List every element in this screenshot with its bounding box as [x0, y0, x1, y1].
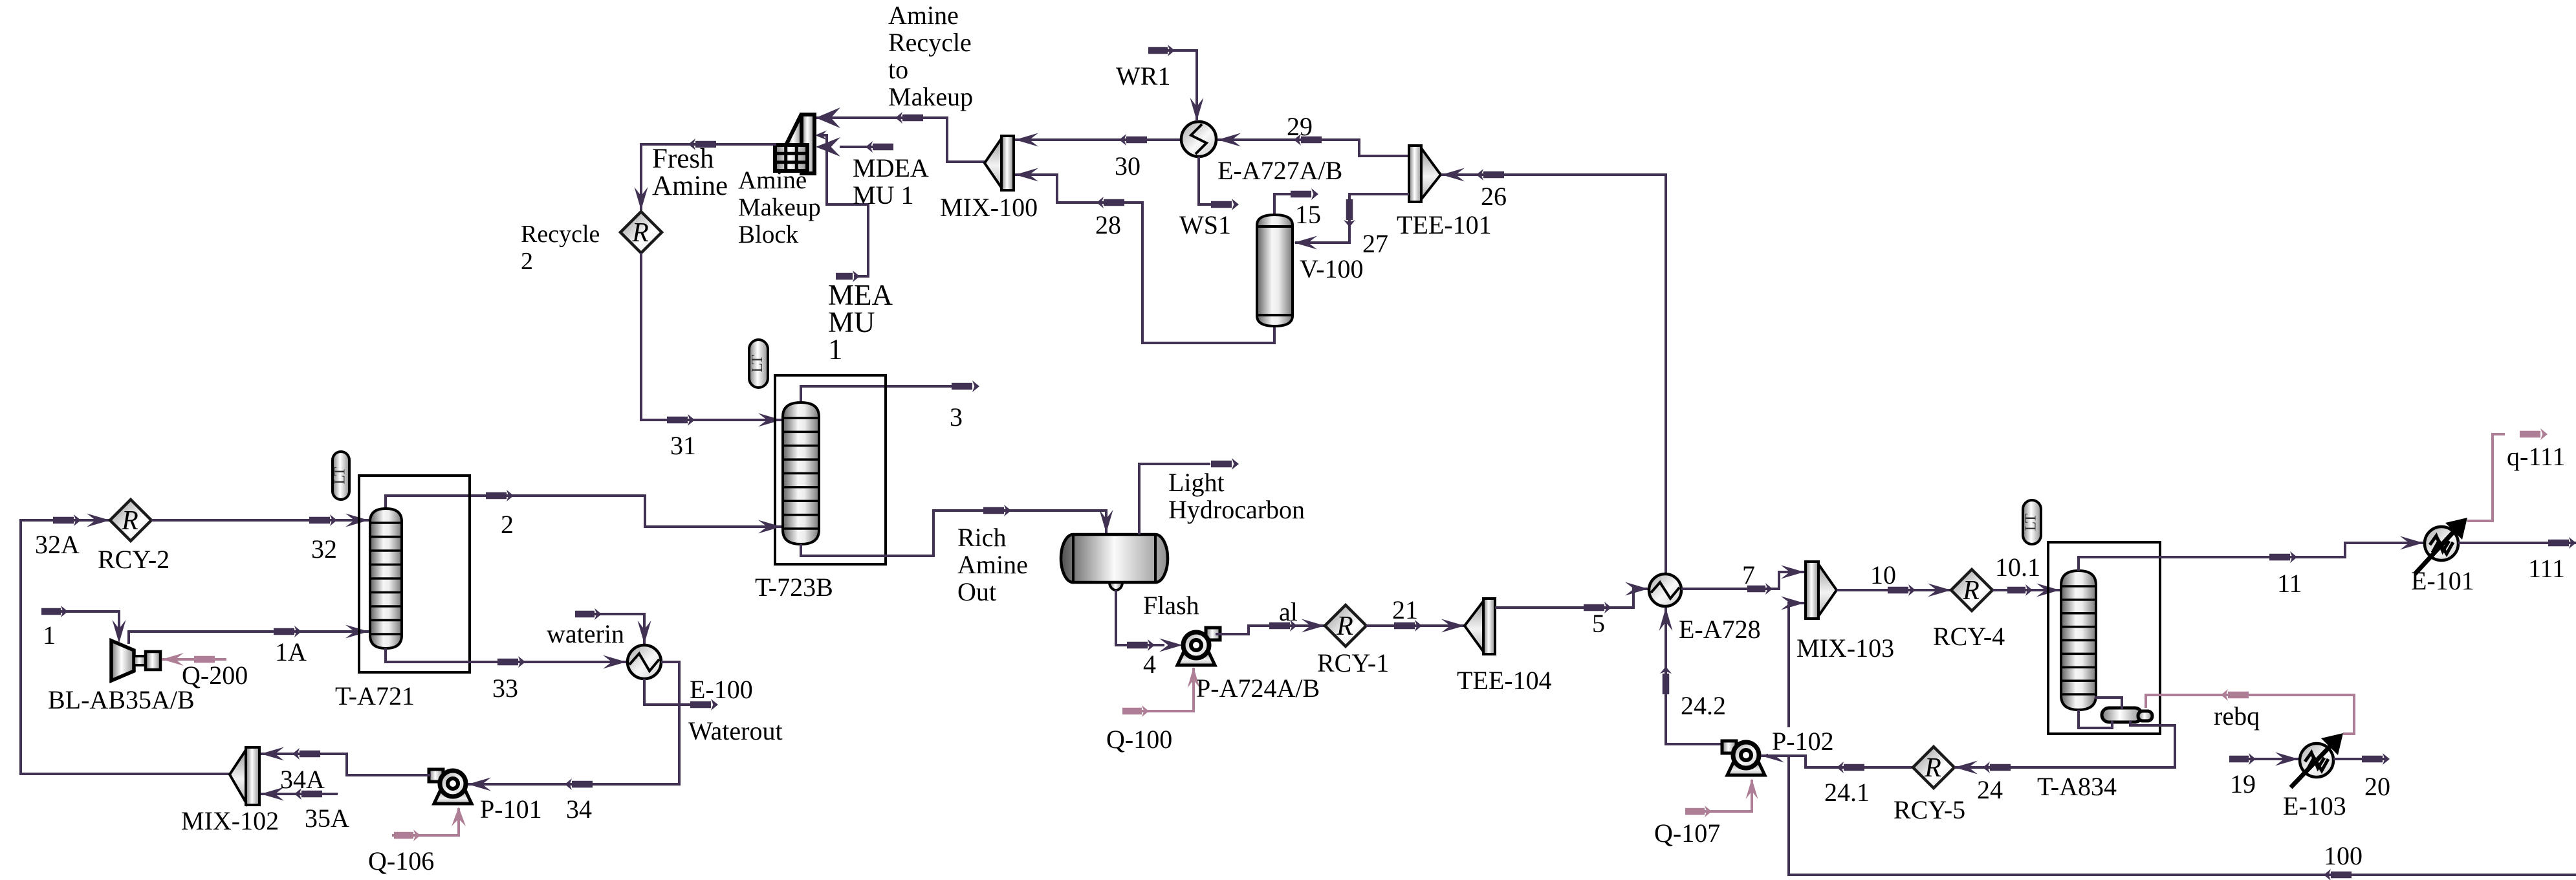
controller pill LT (T-A721) — [332, 452, 350, 500]
svg-text:WR1: WR1 — [1116, 61, 1170, 91]
svg-text:Recycle: Recycle — [888, 28, 972, 57]
label waterin — [547, 619, 624, 648]
label WR1 — [1116, 61, 1170, 91]
vessel V-100 — [1257, 215, 1293, 326]
recycle operation RCY-5 — [1913, 747, 1954, 788]
svg-text:LT: LT — [749, 355, 766, 372]
label MDEA MU 1 — [853, 153, 929, 210]
recycle operation RCY-2 — [110, 500, 151, 541]
wire rebq energy stream — [2146, 689, 2354, 734]
svg-text:Amine: Amine — [738, 166, 807, 194]
svg-text:1: 1 — [828, 333, 843, 366]
svg-text:111: 111 — [2528, 554, 2565, 583]
label Waterout — [688, 716, 783, 745]
label 3 — [950, 402, 963, 432]
column T-723B vessel — [783, 402, 819, 544]
svg-text:4: 4 — [1143, 650, 1156, 679]
wire stream 100 — [1781, 597, 2576, 880]
svg-text:31: 31 — [670, 431, 696, 460]
recycle operation RCY-4 — [1951, 569, 1992, 611]
label Fresh Amine — [652, 144, 728, 201]
label Q-200 — [182, 661, 248, 690]
label 34A — [280, 765, 325, 794]
label 5 — [1592, 609, 1605, 638]
wire column side draw to reboiler — [2095, 698, 2122, 709]
wire stream al — [1216, 619, 1325, 635]
column T-A834 vessel — [2061, 571, 2096, 710]
svg-text:Amine: Amine — [957, 550, 1028, 579]
wire stream 7 — [1681, 566, 1804, 595]
svg-text:R: R — [631, 218, 649, 248]
label 33 — [492, 674, 518, 703]
svg-text:TEE-101: TEE-101 — [1397, 210, 1492, 239]
label 2 — [501, 510, 514, 539]
wire stream 28 — [1015, 168, 1274, 344]
svg-text:24: 24 — [1977, 775, 2003, 804]
wire stream 1 feed — [41, 606, 126, 643]
tee TEE-104 — [1465, 599, 1495, 654]
svg-text:1: 1 — [43, 621, 56, 650]
svg-text:MIX-100: MIX-100 — [940, 193, 1038, 222]
svg-text:33: 33 — [492, 674, 518, 703]
separator Flash drum — [1061, 534, 1168, 590]
svg-text:MIX-103: MIX-103 — [1796, 633, 1894, 663]
label 27 — [1362, 229, 1388, 258]
wire MEA MU 1 feed — [815, 131, 868, 283]
svg-text:20: 20 — [2364, 772, 2390, 801]
svg-text:E-100: E-100 — [690, 675, 753, 704]
label 24.1 — [1824, 778, 1870, 807]
wire stream 30 — [1015, 133, 1181, 147]
svg-text:Block: Block — [738, 221, 799, 248]
wire stream 35A feed — [261, 787, 338, 801]
svg-text:LT: LT — [332, 467, 349, 484]
pump P-102 — [1722, 741, 1765, 775]
svg-text:Rich: Rich — [957, 523, 1007, 552]
svg-text:R: R — [1962, 576, 1980, 606]
svg-text:10: 10 — [1870, 560, 1896, 589]
mixer MIX-102 — [230, 747, 259, 805]
label q-111 — [2507, 442, 2565, 471]
label RCY-4 — [1933, 622, 2005, 651]
svg-text:rebq: rebq — [2214, 701, 2260, 731]
mixer MIX-100 — [985, 136, 1014, 190]
wire stream 31 — [641, 253, 781, 427]
wire stream 20 out — [2333, 753, 2390, 765]
svg-text:waterin: waterin — [547, 619, 624, 648]
svg-text:100: 100 — [2324, 841, 2363, 870]
wire Fresh Amine stream — [635, 138, 777, 210]
wire Amine Recycle to Makeup stream — [816, 107, 985, 162]
label 20 — [2364, 772, 2390, 801]
label 32 — [311, 534, 337, 564]
svg-text:24.2: 24.2 — [1681, 691, 1726, 720]
svg-text:R: R — [121, 506, 138, 536]
svg-text:2: 2 — [501, 510, 514, 539]
label P-102 — [1768, 727, 1838, 756]
svg-text:21: 21 — [1392, 595, 1418, 624]
svg-text:Makeup: Makeup — [738, 193, 821, 221]
label 21 — [1392, 595, 1418, 624]
wire stream 24.2 — [1659, 608, 1725, 744]
wire Waterout stream — [644, 679, 718, 710]
svg-text:Waterout: Waterout — [688, 716, 783, 745]
svg-text:Makeup: Makeup — [888, 82, 973, 111]
label TEE-104 — [1457, 666, 1552, 695]
wire Q-106 energy stream — [392, 807, 466, 841]
svg-text:19: 19 — [2230, 769, 2256, 798]
heat exchanger E-A727A/B — [1181, 122, 1216, 157]
label 29 — [1287, 112, 1313, 141]
label 26 — [1481, 182, 1507, 211]
wire stream 2 — [386, 490, 781, 534]
amine makeup block — [775, 114, 814, 173]
svg-text:15: 15 — [1295, 200, 1321, 229]
svg-text:P-101: P-101 — [480, 795, 542, 824]
label RCY-1 — [1317, 648, 1389, 677]
column T-A721 vessel — [370, 509, 402, 648]
svg-text:R: R — [1336, 611, 1353, 641]
svg-text:Q-106: Q-106 — [368, 846, 434, 875]
wire WS1 out — [1199, 157, 1239, 210]
wire Q-200 energy stream — [162, 653, 226, 666]
svg-text:Light: Light — [1168, 468, 1225, 497]
svg-text:R: R — [1924, 753, 1941, 783]
label E-100 — [690, 675, 753, 704]
wire stream 10 — [1837, 584, 1951, 597]
label rebq — [2214, 701, 2260, 731]
label E-A727A/B — [1217, 156, 1342, 185]
svg-text:Amine: Amine — [888, 1, 959, 30]
svg-text:T-A834: T-A834 — [2037, 772, 2117, 801]
label 15 — [1295, 200, 1321, 229]
tee TEE-101 — [1409, 146, 1441, 202]
label 111 — [2528, 554, 2565, 583]
label P-101 — [480, 795, 542, 824]
reboiler kettle — [2102, 708, 2152, 722]
svg-text:Hydrocarbon: Hydrocarbon — [1168, 495, 1305, 524]
air cooler E-103 — [2291, 733, 2343, 787]
column T-723B box — [775, 375, 886, 564]
svg-text:7: 7 — [1742, 560, 1755, 589]
wire stream 10.1 — [1992, 584, 2060, 597]
label MIX-103 — [1796, 633, 1894, 663]
column T-A721 box — [359, 476, 470, 672]
label 24 — [1977, 775, 2003, 804]
label 1 — [43, 621, 56, 650]
svg-text:Q-107: Q-107 — [1654, 819, 1720, 848]
wire stream 33 — [386, 648, 626, 669]
wire stream 21 — [1366, 619, 1465, 633]
label T-723B — [755, 573, 833, 602]
label Recycle 2 — [521, 221, 600, 275]
svg-text:2: 2 — [521, 248, 533, 275]
label 32A — [35, 530, 80, 559]
wire stream 34 — [468, 662, 679, 791]
label WS1 — [1179, 210, 1231, 239]
wire stream 24 — [1954, 721, 2175, 775]
label 19 — [2230, 769, 2256, 798]
wire stream 111 out — [2458, 537, 2576, 549]
label E-A728 — [1679, 615, 1761, 644]
wire WR1 feed — [1148, 45, 1204, 121]
wire stream 24.1 — [1761, 749, 1913, 774]
label RCY-2 — [98, 545, 169, 574]
svg-text:MIX-102: MIX-102 — [181, 806, 279, 835]
wire stream 15 out — [1274, 188, 1318, 215]
svg-text:T-A721: T-A721 — [335, 681, 415, 710]
svg-text:26: 26 — [1481, 182, 1507, 211]
svg-text:TEE-104: TEE-104 — [1457, 666, 1552, 695]
svg-text:Amine: Amine — [652, 171, 728, 201]
svg-text:Recycle: Recycle — [521, 221, 600, 248]
svg-text:32A: 32A — [35, 530, 80, 559]
svg-text:34A: 34A — [280, 765, 325, 794]
svg-text:34: 34 — [566, 795, 592, 824]
wire stream 29 — [1217, 133, 1409, 157]
wire stream 26 — [1441, 168, 1666, 575]
svg-text:BL-AB35A/B: BL-AB35A/B — [48, 685, 195, 714]
wire Rich Amine Out stream — [801, 505, 1113, 556]
label al — [1279, 597, 1298, 626]
svg-text:Fresh: Fresh — [652, 144, 714, 174]
svg-text:28: 28 — [1095, 210, 1121, 239]
svg-text:P-102: P-102 — [1772, 727, 1834, 756]
svg-text:MU 1: MU 1 — [853, 181, 913, 210]
recycle operation RCY-1 — [1325, 605, 1366, 646]
svg-text:V-100: V-100 — [1300, 254, 1364, 283]
wire stream 1A — [129, 625, 369, 644]
wire stream 32A — [21, 514, 230, 775]
label 31 — [670, 431, 696, 460]
label RCY-5 — [1894, 795, 1965, 824]
wire Q-107 energy stream — [1685, 778, 1758, 817]
label V-100 — [1300, 254, 1364, 283]
label Q-106 — [368, 846, 434, 875]
svg-text:27: 27 — [1362, 229, 1388, 258]
label MEA MU 1 — [828, 279, 893, 366]
pump P-A724A/B — [1177, 628, 1220, 665]
blower BL-AB35A/B — [111, 641, 160, 681]
label Rich Amine Out — [957, 523, 1028, 606]
svg-text:al: al — [1279, 597, 1298, 626]
wire stream 5 — [1495, 582, 1648, 614]
svg-text:10.1: 10.1 — [1995, 553, 2040, 582]
svg-text:MDEA: MDEA — [853, 153, 929, 182]
svg-text:5: 5 — [1592, 609, 1605, 638]
label P-A724A/B — [1196, 674, 1320, 703]
label E-103 — [2283, 791, 2346, 820]
svg-text:RCY-5: RCY-5 — [1894, 795, 1965, 824]
label 35A — [305, 804, 349, 833]
svg-text:E-A727A/B: E-A727A/B — [1217, 156, 1342, 185]
svg-text:RCY-1: RCY-1 — [1317, 648, 1389, 677]
controller pill LT (T-723B) — [749, 340, 768, 388]
svg-text:q-111: q-111 — [2507, 442, 2565, 471]
label Amine Recycle to Makeup — [888, 1, 973, 111]
label 10 — [1870, 560, 1896, 589]
svg-text:WS1: WS1 — [1179, 210, 1231, 239]
svg-text:LT: LT — [2023, 513, 2040, 531]
label T-A834 — [2037, 772, 2117, 801]
heat exchanger E-A728 — [1649, 574, 1681, 606]
label 30 — [1115, 151, 1141, 181]
wire stream 4 — [1116, 590, 1183, 652]
label 10.1 — [1995, 553, 2040, 582]
label 7 — [1742, 560, 1755, 589]
heat exchanger E-100 — [628, 645, 661, 679]
controller pill LT (T-A834) — [2023, 500, 2042, 544]
svg-text:RCY-4: RCY-4 — [1933, 622, 2005, 651]
wire Light Hydrocarbon out — [1139, 458, 1239, 534]
wire stream 27 — [1294, 194, 1409, 250]
svg-text:1A: 1A — [275, 637, 307, 666]
column T-A834 box — [2048, 542, 2160, 734]
label TEE-101 — [1397, 210, 1492, 239]
svg-text:P-A724A/B: P-A724A/B — [1196, 674, 1320, 703]
wire stream 3 out — [801, 380, 979, 402]
label 1A — [275, 637, 307, 666]
svg-text:E-101: E-101 — [2411, 566, 2474, 595]
label Q-100 — [1106, 725, 1172, 754]
air cooler E-101 — [2415, 518, 2467, 574]
label 11 — [2277, 569, 2302, 598]
wire waterin feed — [575, 608, 651, 644]
label BL-AB35A/B — [48, 685, 195, 714]
svg-text:E-A728: E-A728 — [1679, 615, 1761, 644]
label Light Hydrocarbon — [1168, 468, 1305, 524]
mixer MIX-103 — [1806, 562, 1837, 619]
wire stream 34A — [261, 747, 431, 776]
wire q-111 energy out — [2467, 428, 2548, 521]
svg-text:RCY-2: RCY-2 — [98, 545, 169, 574]
wire stream 11 — [2079, 536, 2423, 571]
label 100 — [2324, 841, 2363, 870]
svg-text:11: 11 — [2277, 569, 2302, 598]
svg-text:35A: 35A — [305, 804, 349, 833]
svg-text:T-723B: T-723B — [755, 573, 833, 602]
wire MDEA MU 1 feed — [816, 137, 893, 157]
label 28 — [1095, 210, 1121, 239]
wire column bottoms to reboiler — [2079, 710, 2112, 728]
wire Q-100 energy stream — [1122, 667, 1200, 717]
label E-101 — [2411, 566, 2474, 595]
label Amine Makeup Block — [738, 166, 821, 248]
svg-text:Flash: Flash — [1143, 591, 1199, 620]
svg-text:3: 3 — [950, 402, 963, 432]
pump P-101 — [429, 769, 472, 804]
label Q-107 — [1654, 819, 1720, 848]
label 4 — [1143, 650, 1156, 679]
svg-text:E-103: E-103 — [2283, 791, 2346, 820]
svg-text:Out: Out — [957, 577, 996, 606]
label MIX-100 — [940, 193, 1038, 222]
svg-text:Q-100: Q-100 — [1106, 725, 1172, 754]
label T-A721 — [335, 681, 415, 710]
label Flash — [1143, 591, 1199, 620]
recycle operation Recycle 2 — [620, 212, 662, 253]
label 34 — [566, 795, 592, 824]
svg-text:to: to — [888, 55, 908, 84]
svg-text:30: 30 — [1115, 151, 1141, 181]
label MIX-102 — [181, 806, 279, 835]
wire stream 32 — [151, 514, 369, 527]
label 24.2 — [1681, 691, 1726, 720]
svg-text:29: 29 — [1287, 112, 1313, 141]
wire stream 19 feed — [2229, 753, 2298, 766]
svg-text:24.1: 24.1 — [1824, 778, 1870, 807]
svg-text:32: 32 — [311, 534, 337, 564]
